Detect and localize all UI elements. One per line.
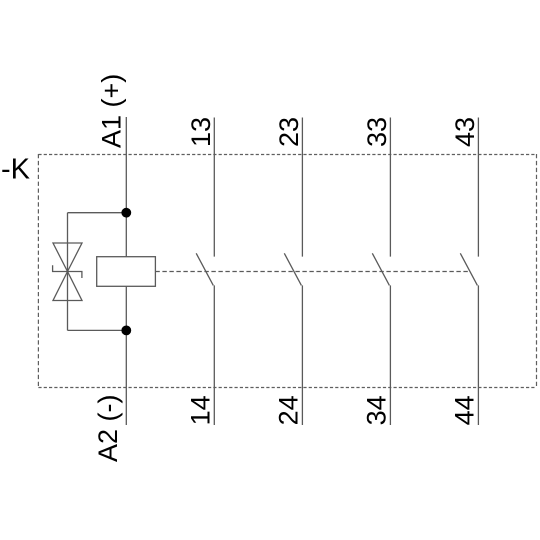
dashed device outline top edge <box>38 154 536 156</box>
svg-text:13: 13 <box>186 117 216 147</box>
dashed device outline left edge <box>37 154 39 388</box>
wire contact 14 bottom lead <box>213 285 215 425</box>
svg-text:44: 44 <box>450 395 480 425</box>
svg-text:-K: -K <box>1 154 31 186</box>
mechanical linkage dashed line <box>155 271 468 273</box>
coil U1 box <box>97 257 156 287</box>
wire contact 23 top lead <box>301 118 303 257</box>
wire contact 13 top lead <box>213 118 215 257</box>
wire suppressor center lead <box>67 213 69 331</box>
dashed device outline bottom edge <box>38 387 536 389</box>
wire contact 34 bottom lead <box>389 285 391 425</box>
svg-text:43: 43 <box>450 117 480 147</box>
svg-text:14: 14 <box>186 395 216 425</box>
wire suppressor top branch <box>68 212 127 214</box>
wire contact 43 top lead <box>477 118 479 257</box>
wire contact 44 bottom lead <box>477 285 479 425</box>
wire contact 33 top lead <box>389 118 391 257</box>
contact 23-24 moving blade <box>284 253 301 285</box>
wire contact 24 bottom lead <box>301 285 303 425</box>
dashed device outline right edge <box>536 154 538 388</box>
svg-text:34: 34 <box>362 395 392 425</box>
svg-text:A1 (+): A1 (+) <box>97 74 127 148</box>
contact 13-14 moving blade <box>196 253 213 285</box>
suppressor diode lower triangle <box>53 272 82 301</box>
svg-text:24: 24 <box>274 395 304 425</box>
wire A2 lead <box>125 286 127 425</box>
svg-text:23: 23 <box>274 117 304 147</box>
svg-text:A2 (-): A2 (-) <box>93 395 123 463</box>
junction dot bottom <box>121 326 131 336</box>
contact 43-44 moving blade <box>460 253 477 285</box>
junction dot top <box>121 208 131 218</box>
suppressor diode upper triangle <box>53 243 82 272</box>
suppressor zener bar <box>53 265 82 278</box>
svg-text:33: 33 <box>362 117 392 147</box>
contact 33-34 moving blade <box>372 253 389 285</box>
wire suppressor bottom branch <box>68 329 127 331</box>
wire A1 lead <box>125 117 127 257</box>
